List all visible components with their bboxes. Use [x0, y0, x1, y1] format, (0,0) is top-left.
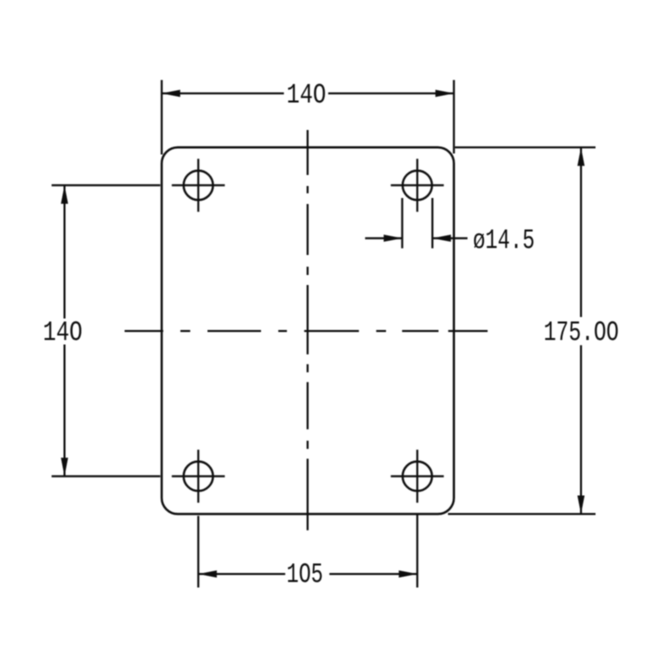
- svg-text:14O: 14O: [43, 318, 83, 349]
- svg-text:175.OO: 175.OO: [544, 318, 619, 348]
- svg-text:ø14.5: ø14.5: [473, 226, 535, 257]
- svg-text:14O: 14O: [287, 81, 327, 112]
- svg-text:1O5: 1O5: [286, 560, 323, 591]
